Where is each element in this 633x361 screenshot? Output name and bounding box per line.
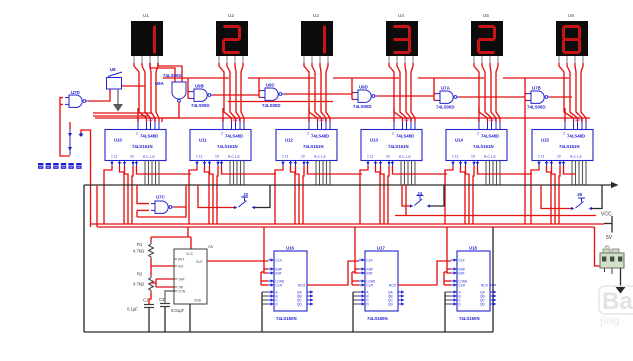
- seven-segment display U4: [386, 13, 418, 63]
- IC U14 segment-driver bundle (gray): [486, 161, 500, 186]
- svg-text:74LS161N: 74LS161N: [473, 144, 494, 149]
- svg-text:1 11: 1 11: [196, 155, 202, 159]
- wire: U16 RCO to U17 CLK: [307, 261, 359, 285]
- svg-text:10: 10: [557, 155, 561, 159]
- wire: R2 bottom to C1: [149, 292, 151, 304]
- svg-text:2: 2: [221, 132, 223, 136]
- IC U13 bottom red wires to bus: [360, 166, 447, 224]
- wires: display U1 pins down to U10 top pins: [134, 63, 159, 122]
- timer A1 (555): [174, 244, 214, 304]
- svg-text:74LS00D: 74LS00D: [163, 73, 182, 78]
- wire: U9B input feeds: [188, 78, 190, 98]
- IC U15 top pins: [564, 118, 587, 130]
- svg-text:10: 10: [386, 155, 390, 159]
- svg-text:Ba: Ba: [602, 288, 633, 315]
- svg-text:1 2 6: 1 2 6: [148, 118, 156, 122]
- svg-text:0.1µF: 0.1µF: [127, 307, 138, 312]
- wire: U9C input feeds: [259, 78, 261, 97]
- wire: J2 right to top rail (black): [255, 185, 270, 208]
- svg-text:U6: U6: [568, 13, 574, 18]
- svg-text:74LS48D: 74LS48D: [140, 134, 158, 139]
- IC U15 segment-driver bundle (gray): [572, 161, 586, 186]
- svg-text:CLR: CLR: [367, 283, 374, 287]
- svg-text:U13: U13: [370, 138, 378, 143]
- IC U14 top pins: [478, 118, 501, 130]
- wires: display U3 pins down to U12 top pins: [304, 63, 330, 122]
- wire: U7D output to U8: [88, 89, 110, 101]
- counter U16 74LS160N: [268, 246, 313, 322]
- wire: U9D input feeds: [352, 78, 354, 99]
- svg-text:1 11: 1 11: [538, 155, 544, 159]
- svg-text:74LS161N: 74LS161N: [388, 144, 409, 149]
- wire: black bottom rail: [84, 331, 493, 333]
- wire: feed for U11 pin at +33: [222, 108, 224, 122]
- wire: black top rail with arrow: [84, 182, 619, 188]
- wire: U7C output loop: [137, 185, 186, 217]
- wire: U7A output: [459, 96, 525, 98]
- svg-text:2: 2: [307, 132, 309, 136]
- wire: U8 area net: [112, 85, 145, 87]
- svg-text:VCC: VCC: [186, 252, 194, 256]
- IC U11 top pins: [222, 118, 245, 130]
- wires: display U2 pins down to U11 top pins: [219, 63, 244, 122]
- wires: U18 ENP/ENT feed from bus: [447, 227, 451, 273]
- IC U12 74LS161N: [276, 130, 337, 161]
- svg-text:U14: U14: [455, 138, 463, 143]
- svg-text:7: 7: [308, 118, 310, 122]
- svg-text:U15: U15: [541, 138, 549, 143]
- IC U13 74LS161N: [361, 130, 422, 161]
- svg-text:1 11: 1 11: [282, 155, 288, 159]
- svg-text:U2: U2: [228, 13, 234, 18]
- svg-text:74LS48D: 74LS48D: [396, 134, 414, 139]
- wire: U7B output: [550, 96, 572, 98]
- svg-text:U11: U11: [199, 138, 207, 143]
- wires: U16 ENP/ENT feed from bus: [264, 227, 268, 273]
- svg-text:U9D: U9D: [359, 85, 368, 90]
- svg-text:J2: J2: [243, 192, 249, 197]
- svg-text:A1: A1: [208, 244, 214, 249]
- capacitor C3 0.01uF: [159, 297, 185, 313]
- svg-text:DIS: DIS: [178, 264, 183, 268]
- NAND gate U9A (vertical): [155, 73, 186, 102]
- wire: U7C input feeds: [137, 185, 149, 217]
- IC U15 bottom pins: [537, 161, 565, 167]
- wires: U18 ABCD to ground rail (black): [445, 292, 451, 332]
- svg-text:U7A: U7A: [441, 86, 451, 91]
- svg-text:ENT: ENT: [459, 271, 465, 275]
- IC U12 top pins: [308, 118, 331, 130]
- IC U10 bottom pins: [110, 161, 138, 167]
- wires: U17 ENP/ENT feed from bus: [355, 227, 359, 273]
- NAND gate U9D: [353, 85, 377, 110]
- wires: U17 ABCD to ground rail (black): [353, 292, 359, 332]
- svg-text:74LS00D: 74LS00D: [191, 103, 210, 108]
- wire: net y101 segment: [228, 101, 333, 103]
- wire: U7B input feeds: [525, 78, 527, 224]
- IC U13 bottom pins: [366, 161, 394, 167]
- seven-segment display U5: [471, 13, 503, 63]
- svg-text:74LS160N: 74LS160N: [459, 316, 480, 321]
- svg-text:74LS161N: 74LS161N: [132, 144, 153, 149]
- svg-text:C3: C3: [159, 297, 165, 302]
- svg-text:U10: U10: [114, 138, 122, 143]
- wire: J6 right to top rail (black): [592, 185, 602, 209]
- svg-text:74LS48D: 74LS48D: [481, 134, 499, 139]
- svg-text:1 2 6: 1 2 6: [575, 118, 583, 122]
- wire: feed for U14 pin at +33: [478, 108, 480, 122]
- wire: display U1 pin4 to U9A input B: [158, 63, 182, 82]
- wire: U9A output down to U10 pins: [162, 102, 179, 122]
- IC U11 74LS161N: [190, 130, 251, 161]
- svg-text:74LS160N: 74LS160N: [276, 316, 297, 321]
- switch U8: [107, 67, 123, 89]
- NAND gate U7A: [436, 86, 459, 110]
- svg-text:7: 7: [478, 118, 480, 122]
- svg-text:7: 7: [222, 118, 224, 122]
- wires: display U5 pins down to U14 top pins: [474, 63, 500, 122]
- svg-text:U9C: U9C: [266, 83, 276, 88]
- wire: red riser x97: [96, 185, 98, 227]
- svg-text:10: 10: [301, 155, 305, 159]
- wire: display U1 pin3 to U9A input A: [150, 63, 175, 82]
- svg-text:10: 10: [471, 155, 475, 159]
- wire: feed for U15 pin at +33: [564, 108, 566, 122]
- NAND gate U9C: [261, 83, 284, 109]
- wire: red bus y215 (right): [395, 215, 596, 217]
- node: terminal dot: [79, 132, 84, 137]
- svg-text:5V: 5V: [606, 235, 613, 241]
- wire: chime switch to bus vertical x90: [81, 130, 91, 227]
- svg-text:R2: R2: [137, 272, 143, 277]
- wire: R1 bottom to DIS: [151, 259, 174, 276]
- svg-text:CLK: CLK: [459, 258, 466, 262]
- wire: horizontal net y78 segments: [163, 77, 569, 79]
- svg-text:74LS00D: 74LS00D: [353, 104, 372, 109]
- IC U12 segment-driver bundle (gray): [316, 161, 330, 186]
- svg-text:QD: QD: [297, 303, 302, 307]
- IC U11 segment-driver bundle (gray): [230, 161, 244, 186]
- svg-text:2: 2: [563, 132, 565, 136]
- wire: switch top stub: [69, 122, 71, 129]
- IC U14 bottom red wires to bus: [445, 166, 532, 224]
- NAND gate U9B: [190, 84, 213, 109]
- svg-text:ENT: ENT: [276, 271, 282, 275]
- IC U14 74LS161N: [446, 130, 507, 161]
- svg-text:RCO: RCO: [481, 283, 489, 287]
- svg-text:74LS00D: 74LS00D: [262, 103, 281, 108]
- wire: J4 left feed: [402, 185, 410, 216]
- svg-text:U1: U1: [143, 13, 149, 18]
- IC U12 bottom red wires to bus: [275, 166, 362, 224]
- seven-segment display U1: [131, 13, 163, 63]
- svg-text:1 11: 1 11: [367, 155, 373, 159]
- wire: U7A input feeds: [434, 78, 436, 100]
- svg-text:74LS48D: 74LS48D: [311, 134, 329, 139]
- wires: U17 LOAD/CLR feed: [352, 272, 359, 285]
- svg-text:1 2 6: 1 2 6: [404, 118, 412, 122]
- wire: U8 pin to off-page arrow: [113, 89, 123, 112]
- svg-text:74LS161N: 74LS161N: [303, 144, 324, 149]
- IC U10 segment-driver bundle (gray): [145, 161, 159, 186]
- svg-text:R C L E: R C L E: [570, 155, 582, 159]
- svg-text:0.01µF: 0.01µF: [171, 308, 185, 313]
- wire: C3 top to 555 CON: [165, 291, 174, 304]
- wire: feed for U13 pin at +33: [393, 108, 395, 122]
- NAND gate U7C: [151, 195, 174, 214]
- svg-text:U5: U5: [483, 13, 489, 18]
- wire: long horizontal net y118: [95, 117, 590, 119]
- wire: U7D inputs from chime switch: [60, 98, 70, 156]
- svg-text:CLR: CLR: [459, 283, 466, 287]
- svg-text:R C L E: R C L E: [143, 155, 155, 159]
- svg-text:4.7kΩ: 4.7kΩ: [133, 249, 144, 254]
- svg-text:1 2 6: 1 2 6: [319, 118, 327, 122]
- svg-text:R C L E: R C L E: [228, 155, 240, 159]
- svg-text:1 11: 1 11: [111, 155, 117, 159]
- capacitor C1 0.1uF: [127, 298, 154, 312]
- svg-text:2: 2: [392, 132, 394, 136]
- IC U15 bottom red wires to bus: [531, 166, 576, 224]
- svg-text:4.7kΩ: 4.7kΩ: [133, 282, 144, 287]
- wire: red bus y224: [91, 223, 605, 225]
- svg-text:CLK: CLK: [276, 258, 283, 262]
- svg-text:RCO: RCO: [389, 283, 397, 287]
- svg-text:U7B: U7B: [532, 86, 541, 91]
- NAND gate U7D: [65, 90, 88, 107]
- counter U17 74LS160N: [359, 246, 404, 322]
- svg-text:7: 7: [564, 118, 566, 122]
- IC U11 bottom red wires to bus: [189, 166, 276, 224]
- wire: C1 to ground rail: [148, 308, 150, 333]
- svg-text:74LS00D: 74LS00D: [436, 105, 455, 110]
- svg-text:R C L E: R C L E: [484, 155, 496, 159]
- svg-text:QD: QD: [388, 303, 393, 307]
- wire: bus to connector JP1: [595, 227, 601, 266]
- label: chime switch text (Chinese): [38, 163, 82, 169]
- switch J2: [234, 192, 255, 209]
- svg-text:C1: C1: [143, 298, 149, 303]
- svg-text:CLR: CLR: [276, 283, 283, 287]
- wires: U18 LOAD/CLR feed: [444, 272, 451, 285]
- svg-text:U4: U4: [398, 13, 404, 18]
- wire: THR/TRI links: [151, 279, 174, 287]
- wire: VCC drop to 555: [151, 227, 191, 249]
- svg-text:74LS48D: 74LS48D: [225, 134, 243, 139]
- wire: 555 OUT to U16 CLK: [207, 260, 268, 262]
- svg-text:U8: U8: [110, 67, 116, 72]
- seven-segment display U2: [216, 13, 248, 63]
- svg-text:U7C: U7C: [156, 195, 166, 200]
- svg-text:1 2 6: 1 2 6: [489, 118, 497, 122]
- IC U13 top pins: [393, 118, 416, 130]
- svg-text:U7D: U7D: [71, 90, 80, 95]
- svg-text:1 2 6: 1 2 6: [233, 118, 241, 122]
- svg-text:R C L E: R C L E: [314, 155, 326, 159]
- svg-text:R1: R1: [137, 242, 143, 247]
- wire: C3 to ground rail: [164, 307, 166, 333]
- wire: black left rail: [83, 185, 85, 332]
- svg-text:R C L E: R C L E: [399, 155, 411, 159]
- svg-text:U16: U16: [286, 246, 294, 251]
- svg-text:U3: U3: [313, 13, 319, 18]
- seven-segment display U6: [556, 13, 588, 63]
- seven-segment display U3: [301, 13, 333, 63]
- IC U10 74LS161N: [105, 130, 166, 161]
- IC U13 segment-driver bundle (gray): [401, 161, 415, 186]
- IC U10 bottom red wires to bus: [104, 166, 191, 224]
- svg-text:7: 7: [393, 118, 395, 122]
- counter U18 74LS160N: [451, 246, 496, 322]
- svg-text:74LS161N: 74LS161N: [559, 144, 580, 149]
- switch J4: [410, 191, 430, 208]
- svg-text:QD: QD: [480, 303, 485, 307]
- wire: 555 GND to rail: [189, 304, 191, 332]
- power label 5V: [606, 235, 613, 241]
- IC U12 bottom pins: [281, 161, 309, 167]
- svg-text:CLK: CLK: [367, 258, 374, 262]
- IC U10 top pins: [137, 118, 160, 130]
- svg-text:VCC: VCC: [601, 212, 612, 218]
- svg-text:U9B: U9B: [195, 84, 204, 89]
- svg-text:ENT: ENT: [367, 271, 373, 275]
- watermark (baidu jingyan): [599, 286, 633, 327]
- wire: J4 right to top rail (black): [430, 185, 444, 206]
- NAND gate U7B: [527, 86, 550, 110]
- connector JP1: [600, 245, 624, 274]
- svg-text:2: 2: [136, 132, 138, 136]
- IC U11 bottom pins: [195, 161, 223, 167]
- wire: U9D output: [377, 95, 434, 97]
- svg-text:74LS48D: 74LS48D: [567, 134, 585, 139]
- wires: display U6 pins down to U15 top pins: [559, 63, 586, 122]
- wire: U9B output: [213, 94, 259, 96]
- svg-text:OUT: OUT: [196, 260, 203, 264]
- svg-text:GND: GND: [194, 299, 202, 303]
- svg-text:JP1: JP1: [604, 245, 610, 249]
- wire: U17 RCO to U18 CLK: [398, 261, 451, 285]
- svg-text:7: 7: [137, 118, 139, 122]
- svg-text:2: 2: [477, 132, 479, 136]
- wire: left nets y113/y116: [93, 113, 152, 116]
- svg-text:U18: U18: [469, 246, 477, 251]
- svg-text:74LS161N: 74LS161N: [217, 144, 238, 149]
- svg-text:jing: jing: [599, 315, 620, 327]
- wire: connector to off-page arrow: [616, 268, 626, 294]
- wire: red bus y227: [97, 226, 595, 228]
- wire: J2 left feed: [198, 185, 234, 208]
- svg-text:J6: J6: [577, 192, 583, 197]
- svg-text:U9A: U9A: [155, 81, 165, 86]
- wire: black right rail: [492, 227, 494, 332]
- wire: J6 left feed: [541, 185, 571, 209]
- svg-text:U12: U12: [285, 138, 293, 143]
- resistor R2 4.7k: [133, 272, 153, 293]
- svg-text:74LS00D: 74LS00D: [527, 105, 546, 110]
- wire: feed for U12 pin at +33: [308, 108, 310, 122]
- svg-text:THR: THR: [178, 277, 185, 281]
- svg-text:74LS160N: 74LS160N: [367, 316, 388, 321]
- svg-text:10: 10: [215, 155, 219, 159]
- switch S1 (chime on/off, vertical): [68, 129, 72, 155]
- svg-text:1 11: 1 11: [452, 155, 458, 159]
- IC U15 74LS161N: [532, 130, 593, 161]
- switch J6: [571, 192, 592, 210]
- svg-text:RST: RST: [178, 257, 184, 261]
- wires: display U4 pins down to U13 top pins: [389, 63, 415, 122]
- svg-text:U17: U17: [377, 246, 385, 251]
- wire: feed for U10 pin at +33: [137, 108, 139, 122]
- wires: U16 ABCD to ground rail (black): [262, 292, 268, 332]
- svg-text:RCO: RCO: [298, 283, 306, 287]
- IC U14 bottom pins: [451, 161, 479, 167]
- svg-text:CON: CON: [178, 289, 186, 293]
- wire: U9C output: [284, 93, 352, 95]
- wires: U16 LOAD/CLR feed: [261, 272, 268, 285]
- resistor R1 4.7k: [133, 242, 153, 259]
- svg-text:10: 10: [130, 155, 134, 159]
- power symbol VCC: [601, 212, 612, 233]
